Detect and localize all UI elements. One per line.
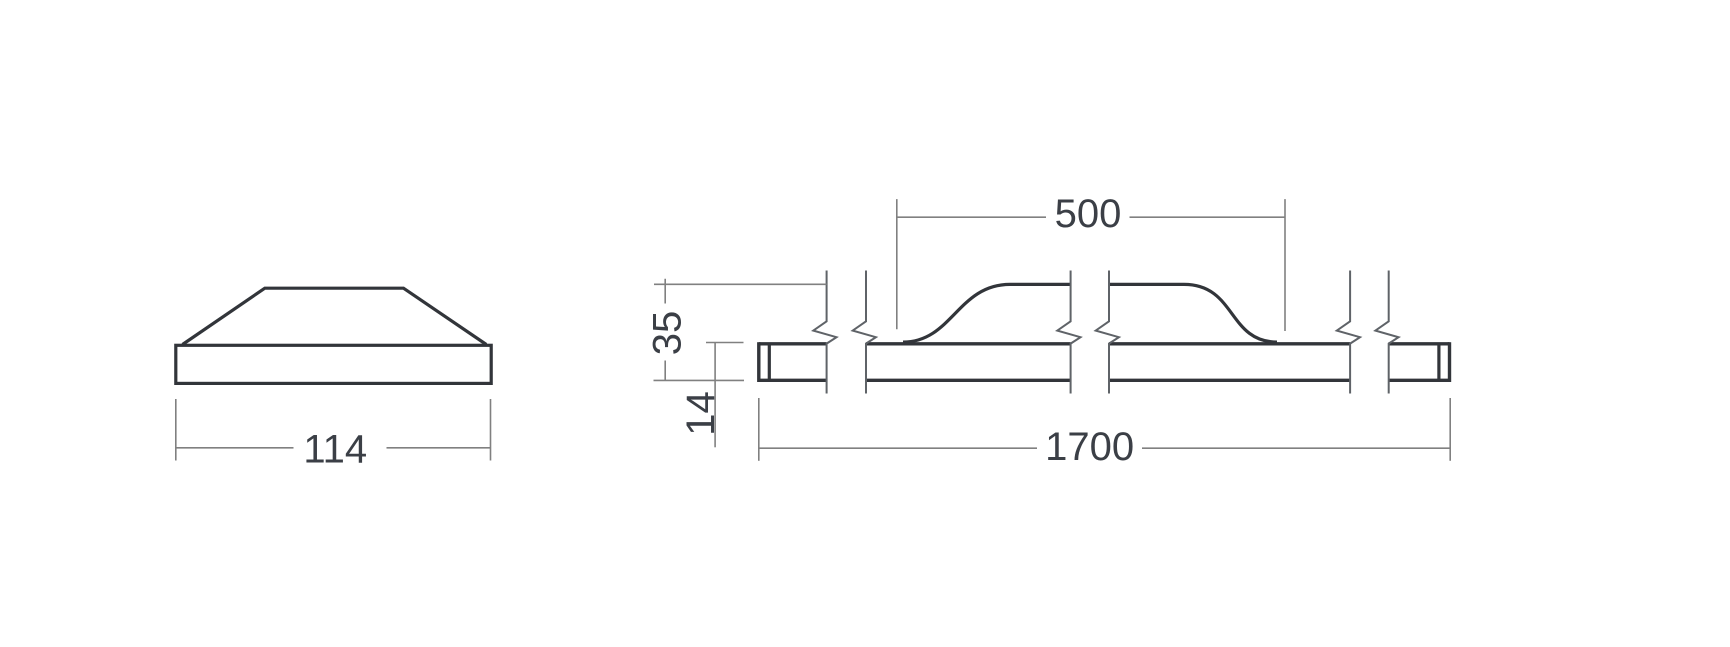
dim 500 extension line right bbox=[1284, 199, 1286, 331]
dim 14 extension tick top bbox=[706, 342, 744, 344]
dim 1700 value label bbox=[1045, 425, 1134, 469]
dim 1700 dimension line bbox=[759, 447, 1450, 449]
break cut line 3 bbox=[1057, 271, 1080, 394]
dim 114 dimension line bbox=[176, 447, 491, 449]
break cut line 2 bbox=[853, 271, 876, 394]
dim 1700 extension line left bbox=[758, 398, 760, 461]
cross-section base rectangle bbox=[176, 345, 491, 383]
hump left half bbox=[903, 284, 1071, 342]
dim 1700 extension line right bbox=[1449, 398, 1451, 461]
dim 35 and 14 shared extension line bottom bbox=[654, 379, 745, 381]
dim 114 extension line right bbox=[490, 399, 492, 461]
bar top outline bbox=[759, 342, 1450, 345]
dim 35 extension line top bbox=[654, 283, 827, 285]
dim 14 value label bbox=[679, 391, 723, 436]
svg-text:114: 114 bbox=[303, 427, 367, 471]
hump right half bbox=[1109, 284, 1277, 342]
cross-section trapezoid cover bbox=[183, 288, 487, 344]
dim 500 value label bbox=[1055, 192, 1122, 236]
dim 35 dimension line bbox=[664, 279, 666, 381]
end cap left bbox=[759, 342, 770, 382]
svg-text:1700: 1700 bbox=[1045, 425, 1134, 469]
break cut line 1 bbox=[813, 271, 836, 394]
svg-text:35: 35 bbox=[646, 311, 690, 356]
dim 114 value label bbox=[303, 427, 367, 471]
svg-text:14: 14 bbox=[679, 391, 723, 436]
dim 14 dimension line bbox=[714, 343, 716, 448]
break cut line 4 bbox=[1096, 271, 1119, 394]
dim 500 extension line left bbox=[896, 199, 898, 329]
dim 114 extension line left bbox=[175, 399, 177, 461]
end cap right bbox=[1439, 342, 1450, 382]
break cut line 5 bbox=[1337, 271, 1360, 394]
bar bottom outline bbox=[759, 379, 1450, 382]
break cut line 6 bbox=[1375, 271, 1398, 394]
svg-text:500: 500 bbox=[1055, 192, 1122, 236]
dim 500 dimension line bbox=[897, 216, 1285, 218]
dim 35 value label bbox=[646, 311, 690, 356]
